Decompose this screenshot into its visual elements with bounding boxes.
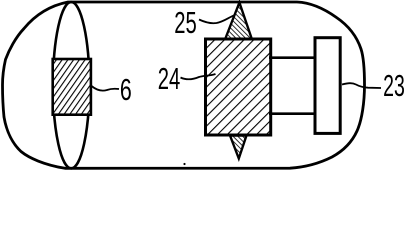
svg-text:6: 6 — [120, 72, 132, 107]
capsule housing outline — [3, 2, 365, 168]
transducer wedge 25 top triangle — [225, 3, 252, 40]
speck on bottom line — [183, 163, 185, 165]
bottom wedge triangle — [230, 136, 247, 159]
leader line 24 — [181, 74, 216, 79]
upper connecting wire — [269, 56, 316, 59]
leader line 25 — [199, 15, 235, 23]
lens ellipse — [53, 2, 89, 168]
svg-text:24: 24 — [158, 61, 181, 96]
component 6 hatched block — [53, 59, 91, 115]
component 23 rectangle — [315, 38, 340, 134]
svg-text:25: 25 — [174, 5, 197, 40]
leader line 23 — [342, 83, 381, 88]
lower connecting wire — [269, 112, 316, 115]
component 24 hatched block — [206, 39, 271, 135]
svg-text:23: 23 — [383, 68, 405, 103]
leader line 6 — [92, 86, 120, 91]
